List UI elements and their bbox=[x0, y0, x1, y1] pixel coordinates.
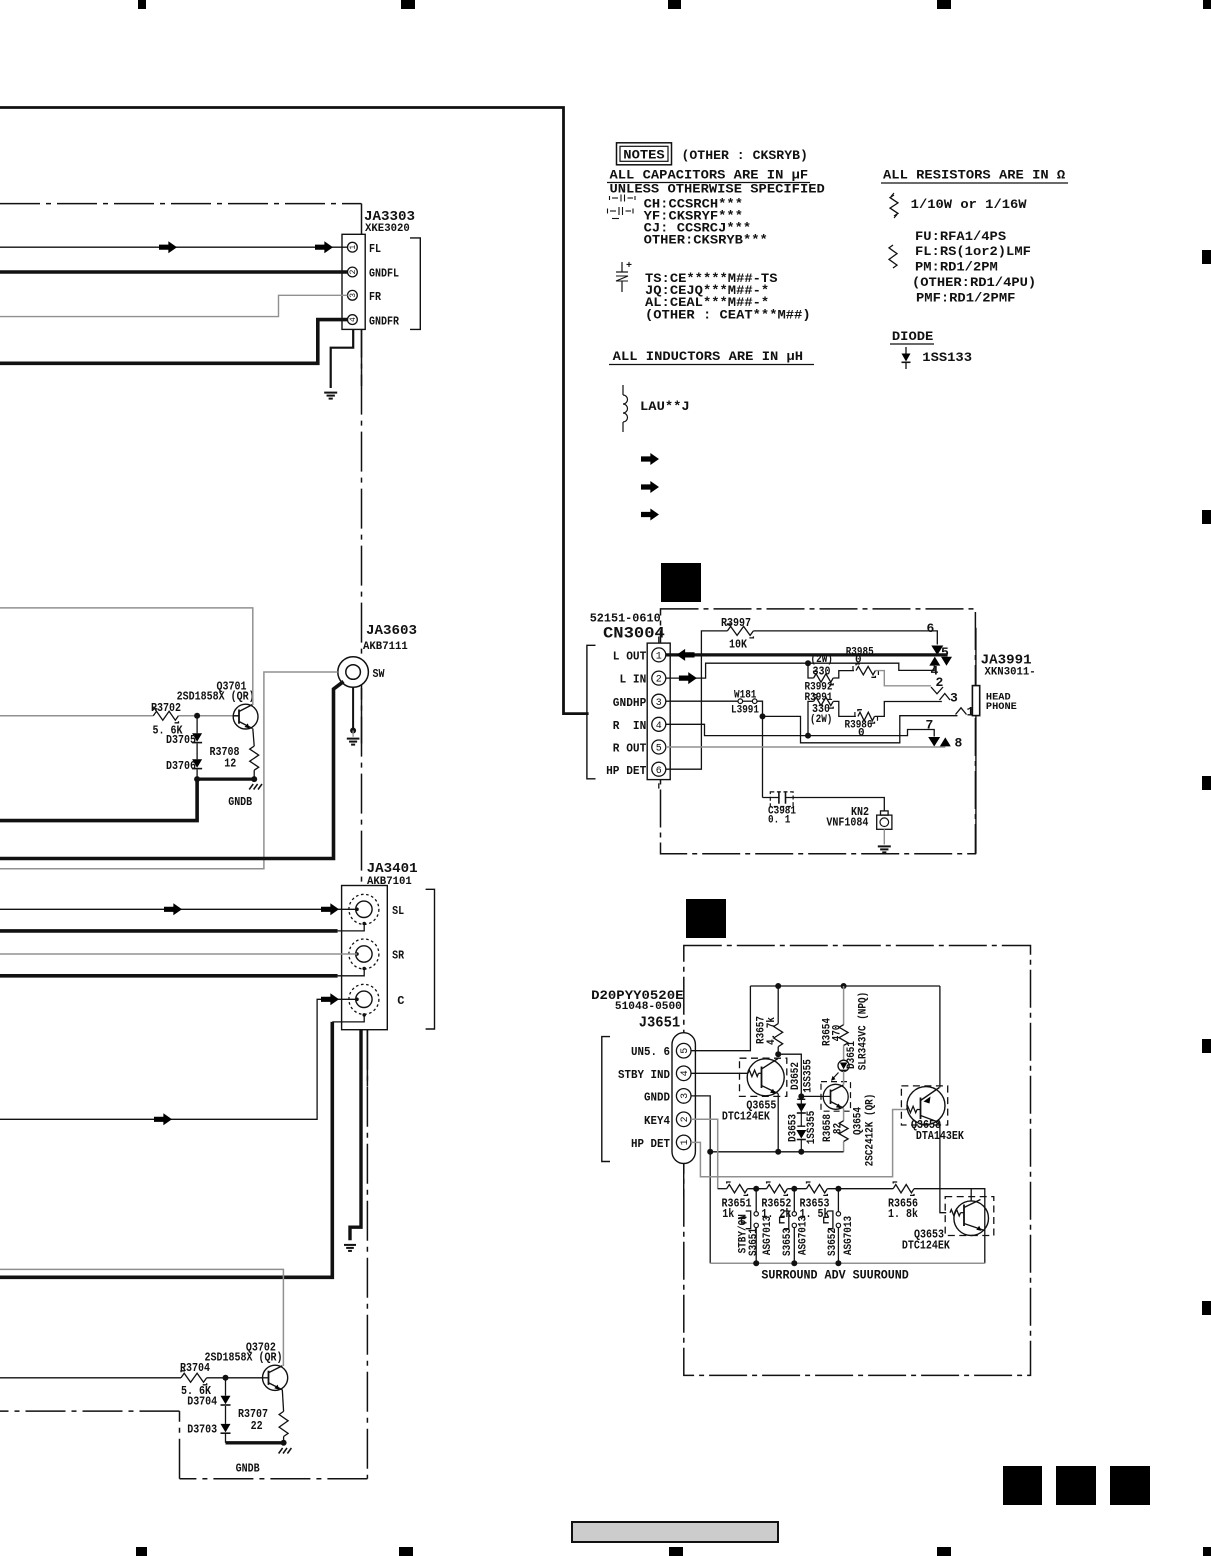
svg-text:1: 1 bbox=[656, 652, 662, 663]
svg-text:UN5. 6: UN5. 6 bbox=[631, 1045, 670, 1059]
svg-text:DIODE: DIODE bbox=[892, 330, 933, 344]
resistor symbol small bbox=[890, 195, 898, 216]
registration mark bottom 3 bbox=[669, 1547, 683, 1556]
connector J3651 pin 4 bbox=[676, 1066, 691, 1081]
jack SR tip dot bbox=[355, 952, 359, 956]
wire KEY4 pin2 bbox=[691, 1119, 718, 1188]
svg-text:12: 12 bbox=[224, 757, 236, 771]
svg-text:ALL CAPACITORS ARE IN µF: ALL CAPACITORS ARE IN µF bbox=[610, 169, 809, 183]
resistor R3654 bbox=[839, 1025, 848, 1046]
arrow net4 up bbox=[929, 657, 940, 666]
registration mark top 4 bbox=[937, 0, 951, 9]
resistor R3656 bbox=[893, 1185, 914, 1193]
wire R3654 to LED bbox=[843, 1046, 845, 1061]
connector J3651 pin 5 bbox=[676, 1043, 691, 1058]
registration mark bottom 5 bbox=[1203, 1547, 1211, 1556]
svg-text:5: 5 bbox=[656, 744, 662, 755]
connector CN3004 pin 3 bbox=[652, 694, 666, 708]
svg-text:ALL RESISTORS ARE IN Ω: ALL RESISTORS ARE IN Ω bbox=[883, 169, 1066, 183]
bracket J3651 bbox=[602, 1037, 610, 1162]
svg-text:FL: FL bbox=[369, 242, 381, 256]
wire D3703 down bbox=[225, 1434, 227, 1443]
svg-text:UNLESS OTHERWISE SPECIFIED: UNLESS OTHERWISE SPECIFIED bbox=[610, 183, 826, 197]
arrow on FL wire 2 bbox=[315, 241, 333, 253]
transistor Q3653 symbol bbox=[954, 1201, 989, 1236]
svg-text:6: 6 bbox=[656, 766, 662, 777]
resistor R3708 bbox=[250, 746, 259, 770]
svg-text:1k: 1k bbox=[722, 1207, 734, 1221]
junction node base Q3702 bbox=[223, 1375, 229, 1381]
junction dot S3651 bbox=[753, 1186, 759, 1192]
svg-text:0: 0 bbox=[858, 728, 865, 740]
wire Q3702 emitter to R3707 bbox=[282, 1390, 283, 1412]
jack SL sleeve dot bbox=[362, 922, 366, 926]
chevron net1 bbox=[956, 708, 967, 715]
assy boundary dash-dot step horizontal bbox=[0, 1410, 180, 1412]
resistor R3985 bbox=[856, 666, 875, 674]
transistor Q3655 symbol bbox=[747, 1059, 784, 1096]
wire L OUT thick bbox=[666, 653, 948, 656]
resistor R3702 bbox=[153, 711, 178, 720]
svg-text:GNDB: GNDB bbox=[236, 1462, 260, 1476]
wire GNDD pin3 bbox=[691, 1096, 710, 1263]
svg-text:10K: 10K bbox=[729, 638, 748, 652]
wire D3705 to D3706 bbox=[196, 744, 198, 760]
wire C3981 right bbox=[786, 798, 885, 811]
svg-text:2: 2 bbox=[680, 1116, 691, 1122]
registration mark bottom 1 bbox=[136, 1547, 147, 1556]
diode symbol note bbox=[905, 347, 907, 354]
wire UN5.6 pin5 bbox=[691, 986, 750, 1051]
wire R3992 branch bbox=[808, 663, 814, 678]
jack C tip dot bbox=[355, 998, 359, 1002]
wire R3991 left bbox=[808, 701, 814, 735]
arrow on C wire 2 bbox=[321, 993, 339, 1005]
headphone jack JA3991 body bbox=[972, 686, 979, 716]
wire FL bbox=[0, 246, 348, 248]
svg-text:L3991: L3991 bbox=[731, 705, 759, 717]
connector CN3004 pin 2 bbox=[652, 671, 666, 685]
capacitor symbol electrolytic bbox=[621, 262, 623, 272]
wire SL sleeve bbox=[338, 924, 365, 931]
wire LED to Q3654 bbox=[843, 1071, 845, 1085]
svg-text:XKN3011-: XKN3011- bbox=[985, 667, 1036, 679]
svg-text:JA3603: JA3603 bbox=[366, 623, 417, 639]
registration mark top 3 bbox=[668, 0, 681, 9]
jack JA3603 SW inner bbox=[346, 665, 361, 680]
resistor R3657 bbox=[774, 1024, 783, 1047]
connector J3651 pin 1 bbox=[676, 1135, 691, 1150]
svg-text:470: 470 bbox=[831, 1025, 843, 1042]
wire R3657 top bbox=[777, 986, 779, 1024]
wire Q3701 emitter to R3708 bbox=[253, 729, 254, 747]
svg-text:PM:RD1/2PM: PM:RD1/2PM bbox=[915, 261, 998, 275]
svg-text:KEY4: KEY4 bbox=[644, 1114, 670, 1128]
switch S3651 bbox=[755, 1189, 757, 1212]
svg-text:R IN: R IN bbox=[613, 719, 647, 733]
svg-text:2: 2 bbox=[656, 675, 662, 686]
svg-text:52151-0610: 52151-0610 bbox=[590, 612, 661, 626]
svg-text:8: 8 bbox=[955, 736, 963, 751]
svg-text:1: 1 bbox=[349, 245, 358, 250]
supply rail top bbox=[750, 985, 940, 987]
svg-text:D3652: D3652 bbox=[790, 1062, 802, 1090]
assy boundary dash-dot vertical upper bbox=[361, 204, 363, 885]
svg-text:(OTHER : CEAT***M##): (OTHER : CEAT***M##) bbox=[645, 309, 811, 323]
wire R3707 bottom bbox=[283, 1437, 285, 1443]
registration mark top 5 bbox=[1203, 0, 1211, 9]
bracket JA3401 bbox=[426, 889, 435, 1029]
svg-text:SURROUND ADV SUUROUND: SURROUND ADV SUUROUND bbox=[761, 1269, 909, 1283]
transistor Q3658 box bbox=[901, 1086, 947, 1125]
svg-text:GNDD: GNDD bbox=[644, 1090, 670, 1104]
resistor symbol small 2 bbox=[889, 245, 897, 268]
transistor Q3654 box bbox=[821, 1082, 851, 1112]
svg-text:W181: W181 bbox=[734, 690, 757, 702]
svg-text:3: 3 bbox=[656, 698, 662, 709]
resistor R3652 bbox=[767, 1185, 788, 1193]
ground SW jack bbox=[347, 738, 360, 740]
svg-text:GNDFR: GNDFR bbox=[369, 315, 400, 329]
connector J3651 body bbox=[672, 1033, 695, 1164]
wire diode chain D3705 bbox=[196, 716, 198, 734]
arrow on SL wire 2 bbox=[321, 903, 339, 915]
svg-text:D3653: D3653 bbox=[787, 1114, 799, 1142]
wire C ground thick bbox=[0, 1022, 332, 1277]
svg-text:3: 3 bbox=[950, 691, 958, 706]
chevron net3 bbox=[940, 694, 951, 701]
svg-text:82: 82 bbox=[832, 1123, 844, 1134]
arrow on C wire 1 bbox=[154, 1113, 172, 1125]
svg-text:4: 4 bbox=[349, 317, 358, 322]
registration mark bottom 2 bbox=[399, 1547, 413, 1556]
svg-text:(OTHER:RD1/4PU): (OTHER:RD1/4PU) bbox=[912, 276, 1036, 290]
jack C inner bbox=[356, 991, 372, 1007]
ground GNDB Q3701 bbox=[249, 784, 253, 790]
diode D3652 bbox=[797, 1098, 805, 1100]
svg-text:R3702: R3702 bbox=[151, 701, 181, 715]
svg-text:GNDB: GNDB bbox=[228, 795, 252, 809]
svg-text:2: 2 bbox=[349, 269, 358, 274]
svg-text:2SC2412K (QR): 2SC2412K (QR) bbox=[864, 1094, 876, 1167]
junction dot Q3654 base node bbox=[798, 1093, 804, 1099]
power amp block border bbox=[0, 108, 589, 714]
black marker square mid-left bbox=[661, 563, 701, 602]
registration mark top 1 bbox=[138, 0, 146, 9]
wire Q3658 collector bbox=[940, 1123, 946, 1213]
capacitor C3981 plates bbox=[778, 791, 780, 803]
jack SL tip dot bbox=[355, 908, 359, 912]
junction dot rail S3653 bbox=[791, 1260, 797, 1266]
svg-text:D3704: D3704 bbox=[187, 1395, 217, 1409]
wire JA3991 bottom bbox=[975, 716, 977, 854]
svg-text:SR: SR bbox=[392, 949, 405, 963]
connector J3651 pin 2 bbox=[676, 1112, 691, 1127]
svg-text:HP DET: HP DET bbox=[631, 1137, 670, 1151]
svg-text:GNDHP: GNDHP bbox=[613, 696, 647, 710]
junction dot GNDHP branch bbox=[760, 713, 766, 719]
svg-text:HP DET: HP DET bbox=[606, 764, 646, 778]
wire SW lug thick bbox=[0, 682, 344, 859]
NOTES box inner bbox=[620, 146, 668, 161]
wire C3981 left bbox=[763, 797, 779, 799]
arrow off-page 1 bbox=[641, 453, 659, 465]
junction dot GNDB bottom bbox=[281, 1440, 287, 1446]
wire Q3701 base left bbox=[0, 715, 153, 717]
wire D3704 to D3703 bbox=[225, 1406, 227, 1424]
jumper W181 bbox=[738, 699, 743, 704]
jack SR outer bbox=[349, 939, 379, 969]
svg-text:AKB7111: AKB7111 bbox=[363, 641, 408, 653]
resistor R3707 bbox=[279, 1411, 288, 1436]
wire JA3991 top bbox=[975, 628, 977, 686]
transistor Q3701 symbol bbox=[233, 704, 258, 729]
wire SW signal bbox=[0, 672, 338, 869]
connector J3651 axis stub bbox=[683, 1164, 685, 1197]
wire D3706 down bbox=[196, 770, 198, 780]
connector CN3004 axis tick top bbox=[658, 637, 660, 644]
wire pin6 HP DET riser bbox=[666, 631, 728, 769]
switch S3653 bbox=[793, 1189, 795, 1212]
wire Q3654 base bbox=[801, 1095, 823, 1097]
capacitor symbol film bbox=[610, 210, 616, 212]
connector CN3004 axis tick bottom bbox=[658, 783, 660, 788]
wire GNDFR thick bbox=[0, 320, 348, 364]
arrow off-page 3 bbox=[641, 509, 659, 521]
wire SR signal bbox=[0, 953, 357, 955]
registration mark bottom 4 bbox=[937, 1547, 951, 1556]
resistor R3704 bbox=[181, 1373, 207, 1382]
transistor Q3702 symbol bbox=[263, 1365, 288, 1390]
gray scale bar bbox=[572, 1522, 778, 1542]
svg-text:FL:RS(1or2)LMF: FL:RS(1or2)LMF bbox=[915, 245, 1031, 259]
color patch square 1 bbox=[1003, 1466, 1042, 1505]
svg-text:ASG7013: ASG7013 bbox=[762, 1216, 774, 1256]
svg-text:CN3004: CN3004 bbox=[603, 625, 665, 643]
wire R3992 to R3985 bbox=[833, 671, 854, 678]
svg-text:2SD1858X (QR): 2SD1858X (QR) bbox=[205, 1351, 283, 1365]
diode D3704 bbox=[221, 1396, 231, 1405]
wire R3653-R3656 bbox=[827, 1188, 893, 1190]
diode D3653 bbox=[797, 1125, 805, 1127]
arrow off-page 2 bbox=[641, 481, 659, 493]
NOTES box outer bbox=[617, 143, 672, 165]
connector JA3303 body bbox=[342, 234, 365, 329]
junction dot Q3655 collector bbox=[775, 1051, 781, 1057]
connector JA3303 pin 2 bbox=[348, 267, 358, 277]
svg-text:R3997: R3997 bbox=[721, 616, 751, 630]
svg-text:ALL INDUCTORS ARE IN µH: ALL INDUCTORS ARE IN µH bbox=[613, 350, 803, 364]
wire L IN bbox=[666, 663, 934, 678]
svg-text:1SS355: 1SS355 bbox=[806, 1110, 818, 1144]
transistor Q3658 symbol bbox=[907, 1087, 945, 1125]
note diode underline bbox=[890, 343, 934, 345]
wire Q3653 collector bbox=[970, 1189, 972, 1201]
ground GNDB Q3702 bbox=[279, 1448, 283, 1454]
resistor R3992 bbox=[814, 674, 834, 682]
wire R3657 bottom bbox=[777, 1047, 779, 1056]
jack SL inner bbox=[356, 901, 372, 917]
svg-text:SLR343VC (NPQ): SLR343VC (NPQ) bbox=[857, 992, 869, 1070]
junction dot S3652 bbox=[835, 1186, 841, 1192]
wire SL ground thick bbox=[0, 929, 338, 933]
resistor R3651 bbox=[727, 1185, 748, 1193]
junction dot rail S3652 bbox=[835, 1260, 841, 1266]
black marker square J3651 bbox=[686, 899, 726, 938]
wire net1 bbox=[763, 716, 958, 743]
connector CN3004 pin 4 bbox=[652, 717, 666, 731]
arrow net7 down bbox=[928, 737, 940, 747]
svg-text:1SS133: 1SS133 bbox=[922, 351, 972, 365]
junction dot GNDB right bbox=[251, 776, 257, 782]
svg-text:DTC124EK: DTC124EK bbox=[902, 1239, 951, 1253]
LED D3651 bbox=[838, 1060, 849, 1071]
svg-text:NOTES: NOTES bbox=[623, 149, 665, 163]
svg-text:LAU**J: LAU**J bbox=[640, 400, 690, 414]
wire R3658 bottom bbox=[843, 1142, 845, 1152]
wire R3652-R3653 bbox=[787, 1188, 806, 1190]
wire C signal bbox=[0, 999, 357, 1119]
svg-text:ASG7013: ASG7013 bbox=[843, 1216, 855, 1256]
svg-text:D3703: D3703 bbox=[187, 1423, 217, 1437]
dashed board outline J3651 bbox=[684, 946, 1031, 1376]
registration mark right 1 bbox=[1202, 250, 1211, 264]
arrow L OUT left bbox=[677, 649, 695, 661]
registration mark right 3 bbox=[1202, 776, 1211, 790]
contact KN2 symbol bbox=[881, 811, 889, 815]
connector CN3004 pin 6 bbox=[652, 762, 666, 776]
transistor Q3653 box bbox=[945, 1197, 994, 1236]
resistor R3658 bbox=[839, 1121, 848, 1142]
svg-text:4. 7k: 4. 7k bbox=[766, 1017, 778, 1045]
resistor R3997 bbox=[727, 626, 753, 635]
wire SW sleeve bbox=[352, 687, 354, 730]
wire R3654 top bbox=[843, 986, 845, 1025]
wire R3708 bottom bbox=[253, 770, 255, 779]
ground JA3303 bbox=[324, 392, 337, 394]
svg-text:4: 4 bbox=[680, 1070, 691, 1076]
wire JA3303 sleeve to ground bbox=[331, 329, 354, 388]
wire SL signal bbox=[0, 908, 357, 910]
wire diode chain D3704 bbox=[225, 1378, 227, 1396]
svg-text:(2W): (2W) bbox=[810, 714, 832, 726]
junction dot SW ground bbox=[350, 728, 356, 734]
bracket CN3004 bbox=[587, 645, 596, 779]
svg-text:2SD1858X (QR): 2SD1858X (QR) bbox=[177, 690, 255, 704]
svg-text:VNF1084: VNF1084 bbox=[826, 816, 868, 830]
svg-text:C: C bbox=[397, 994, 404, 1008]
transistor Q3655 box bbox=[740, 1058, 787, 1096]
connector JA3303 pin 4 bbox=[348, 315, 358, 325]
wire GNDB return thick bbox=[0, 779, 197, 821]
capacitor C3981 dashed box bbox=[770, 792, 793, 807]
svg-text:51048-0500: 51048-0500 bbox=[615, 1001, 682, 1013]
diode D3706 bbox=[192, 759, 202, 768]
transistor Q3654 symbol bbox=[823, 1084, 848, 1109]
wire KN2 ground bbox=[883, 829, 885, 844]
jack SR inner bbox=[356, 946, 372, 962]
svg-text:ASG7013: ASG7013 bbox=[798, 1216, 810, 1256]
svg-text:XKE3020: XKE3020 bbox=[365, 223, 410, 235]
junction dot R3991 bottom bbox=[805, 733, 811, 739]
wire GNDB link thick bottom bbox=[226, 1441, 284, 1444]
junction dot rail Q3655e bbox=[775, 1149, 781, 1155]
svg-text:6: 6 bbox=[927, 621, 935, 636]
note inductors underline bbox=[609, 364, 814, 366]
svg-text:3: 3 bbox=[349, 293, 358, 298]
registration mark right 5 bbox=[1202, 1301, 1211, 1315]
connector CN3004 pin 5 bbox=[652, 740, 666, 754]
jack SR sleeve dot bbox=[362, 967, 366, 971]
note capacitors underline bbox=[607, 182, 810, 184]
svg-text:FR: FR bbox=[369, 290, 382, 304]
svg-text:(OTHER : CKSRYB): (OTHER : CKSRYB) bbox=[682, 149, 808, 163]
assy boundary solid segment below JA3303 bbox=[361, 329, 363, 386]
svg-text:DTC124EK: DTC124EK bbox=[722, 1110, 771, 1124]
junction node base Q3701 bbox=[194, 713, 200, 719]
wire SR ground thick bbox=[0, 974, 338, 978]
wire Q3702 base left bbox=[0, 1377, 181, 1379]
jack SL outer bbox=[349, 894, 379, 924]
svg-text:PMF:RD1/2PMF: PMF:RD1/2PMF bbox=[916, 292, 1015, 306]
connector JA3401 body bbox=[342, 886, 388, 1030]
resistor R3986 bbox=[858, 712, 875, 720]
registration mark right 2 bbox=[1202, 510, 1211, 524]
svg-text:PHONE: PHONE bbox=[986, 701, 1017, 713]
svg-text:R3704: R3704 bbox=[180, 1361, 210, 1375]
assy boundary dash-dot vertical lower bbox=[366, 1030, 368, 1479]
color patch square 3 bbox=[1110, 1466, 1150, 1505]
svg-text:1: 1 bbox=[680, 1139, 691, 1145]
svg-text:SL: SL bbox=[392, 904, 404, 918]
jack JA3603 SW outer bbox=[338, 657, 369, 688]
wire Q3655 base bbox=[691, 1072, 748, 1074]
junction dot GNDB left bbox=[194, 776, 200, 782]
assy boundary solid segment at JA3603 bbox=[361, 688, 363, 744]
wire R IN bbox=[666, 724, 934, 736]
svg-text:D3705: D3705 bbox=[166, 733, 196, 747]
svg-text:1/10W or 1/16W: 1/10W or 1/16W bbox=[911, 198, 1027, 212]
wire W181 down bbox=[757, 701, 763, 797]
wire R3651-R3652 bbox=[748, 1188, 767, 1190]
svg-text:GNDFL: GNDFL bbox=[369, 267, 399, 281]
arrow on FL wire 1 bbox=[159, 241, 177, 253]
svg-text:3: 3 bbox=[680, 1093, 691, 1099]
svg-text:Q3654: Q3654 bbox=[852, 1107, 864, 1135]
arrow on SL wire 1 bbox=[164, 903, 182, 915]
resistor R3991 bbox=[814, 697, 834, 705]
wire Q3654 emitter bbox=[843, 1109, 845, 1121]
resistor network line bbox=[718, 1188, 727, 1190]
jack C outer bbox=[349, 984, 379, 1014]
svg-text:5: 5 bbox=[680, 1048, 691, 1054]
ground KN2 bbox=[878, 845, 891, 847]
bracket JA3303 bbox=[410, 238, 420, 330]
connector J3651 pin 3 bbox=[676, 1089, 691, 1104]
svg-text:S3653: S3653 bbox=[782, 1228, 794, 1256]
svg-text:S3651: S3651 bbox=[748, 1228, 760, 1256]
wire GNDFL thick bbox=[0, 270, 348, 274]
svg-text:+: + bbox=[626, 261, 632, 272]
junction dot rail S3651 bbox=[753, 1260, 759, 1266]
svg-text:JA3401: JA3401 bbox=[367, 861, 418, 877]
wire GNDHP to W181 bbox=[666, 700, 738, 702]
svg-text:1. 8k: 1. 8k bbox=[888, 1207, 918, 1221]
arrow net5 down bbox=[931, 646, 943, 656]
capacitor symbol ceramic bbox=[612, 197, 618, 199]
dashed board outline CN3004 bbox=[661, 609, 976, 854]
junction dot rail R3657 bbox=[775, 983, 781, 989]
